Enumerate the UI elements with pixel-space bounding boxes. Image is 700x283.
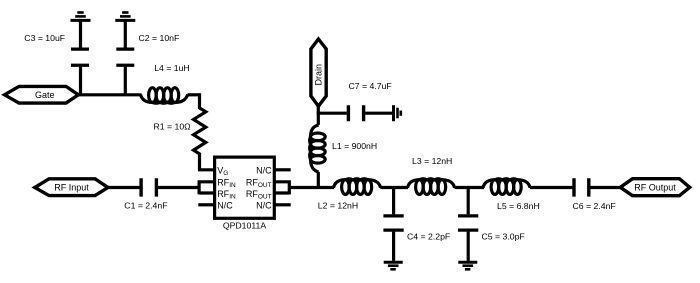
- port Gate: [5, 86, 79, 103]
- capacitor C7: [348, 105, 363, 121]
- svg-text:C5 = 3.0pF: C5 = 3.0pF: [482, 232, 525, 242]
- svg-text:L4 = 1uH: L4 = 1uH: [154, 63, 190, 73]
- port RF Output: [620, 179, 689, 196]
- svg-text:RFIN: RFIN: [217, 177, 236, 189]
- inductor L4: [141, 88, 188, 104]
- capacitor C2: [116, 21, 134, 94]
- svg-text:C3 = 10uF: C3 = 10uF: [24, 33, 65, 43]
- svg-text:C1 = 2.4nF: C1 = 2.4nF: [124, 201, 167, 211]
- capacitor C6: [574, 178, 589, 196]
- wire C7 to ground: [365, 112, 392, 115]
- svg-text:L3 = 12nH: L3 = 12nH: [412, 156, 452, 166]
- svg-text:RFIN: RFIN: [217, 189, 236, 201]
- capacitor C5: [458, 216, 478, 261]
- wire C1 to RFin bracket: [158, 186, 200, 189]
- svg-text:Gate: Gate: [35, 90, 55, 100]
- svg-text:R1 = 10Ω: R1 = 10Ω: [154, 121, 192, 131]
- wire node to C5: [467, 186, 470, 214]
- wire L4 to R1: [188, 93, 200, 96]
- inductor L5: [483, 179, 530, 195]
- capacitor C1: [141, 178, 156, 196]
- pin N/C stub right top: [275, 168, 291, 171]
- wire R1 to pin VG: [198, 168, 215, 171]
- svg-text:QPD1011A: QPD1011A: [223, 221, 267, 231]
- svg-text:Drain: Drain: [314, 64, 324, 86]
- port Drain: [311, 39, 326, 106]
- inductor L2: [334, 179, 381, 195]
- inductor L1: [310, 125, 326, 172]
- svg-text:N/C: N/C: [256, 165, 272, 175]
- wire gate line: [77, 93, 142, 96]
- svg-text:L2 = 12nH: L2 = 12nH: [318, 201, 358, 211]
- inductor L3: [408, 179, 455, 195]
- wire node to C7: [317, 112, 347, 115]
- wire node to C4: [392, 186, 395, 214]
- svg-text:C2 = 10nF: C2 = 10nF: [139, 33, 180, 43]
- wire RFout bracket: [275, 180, 289, 194]
- wire RFout to L2 node: [289, 186, 334, 189]
- svg-text:RF Output: RF Output: [634, 183, 676, 193]
- ground sideways right of C7: [394, 105, 401, 121]
- resistor R1: [194, 93, 206, 170]
- pin N/C stub left: [198, 203, 214, 206]
- IC U1 QPD1011A: [215, 157, 275, 218]
- wire L5 to C6: [530, 186, 572, 189]
- svg-text:C7 = 4.7uF: C7 = 4.7uF: [349, 81, 392, 91]
- capacitor C4: [383, 216, 403, 261]
- wire RF input to C1: [107, 186, 140, 189]
- svg-text:C4 = 2.2pF: C4 = 2.2pF: [407, 232, 450, 242]
- svg-text:L1 = 900nH: L1 = 900nH: [332, 141, 377, 151]
- wire L1 to output line: [317, 172, 320, 189]
- svg-text:L5 = 6.8nH: L5 = 6.8nH: [497, 201, 540, 211]
- svg-text:RF Input: RF Input: [54, 183, 89, 193]
- pin N/C stub right bottom: [275, 203, 291, 206]
- svg-text:N/C: N/C: [217, 201, 233, 211]
- wire L3 to L5: [455, 186, 485, 189]
- ground below C5: [458, 262, 477, 269]
- svg-text:RFOUT: RFOUT: [246, 189, 272, 201]
- capacitor C3: [71, 21, 89, 94]
- ground below C4: [384, 262, 403, 269]
- wire C6 to RF output: [590, 186, 621, 189]
- ground flipped above C3: [71, 13, 91, 21]
- wire L2 to L3: [380, 186, 408, 189]
- port RF Input: [35, 179, 108, 196]
- svg-text:C6 = 2.4nF: C6 = 2.4nF: [573, 201, 616, 211]
- svg-text:VG: VG: [217, 165, 228, 177]
- svg-text:N/C: N/C: [256, 201, 272, 211]
- svg-text:RFOUT: RFOUT: [246, 177, 272, 189]
- wire RFin bracket: [199, 180, 214, 194]
- wire drain to node: [317, 105, 320, 125]
- ground flipped above C2: [115, 13, 135, 21]
